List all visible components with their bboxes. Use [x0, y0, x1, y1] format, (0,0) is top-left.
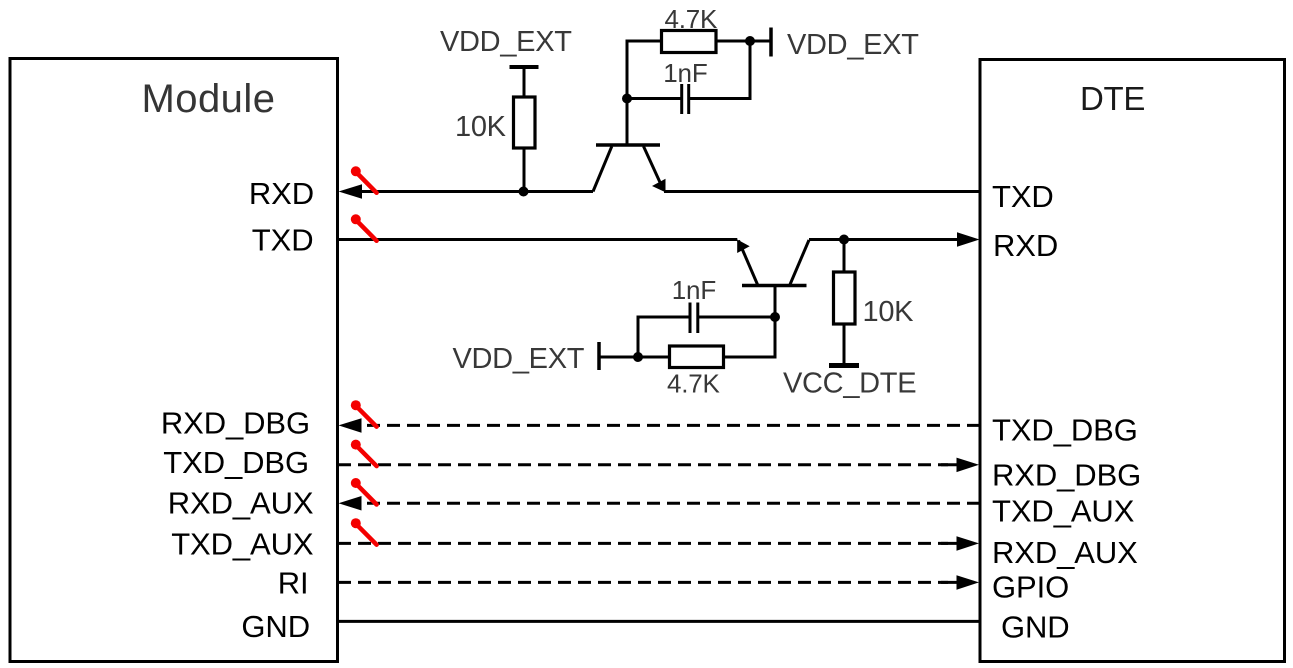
svg-text:VDD_EXT: VDD_EXT: [440, 26, 572, 58]
wire RXD right segment: [664, 190, 980, 193]
module box U1 (Module): [10, 59, 338, 662]
svg-text:RXD_AUX: RXD_AUX: [168, 485, 314, 520]
wire TXD left segment: [338, 238, 737, 241]
svg-text:RXD_DBG: RXD_DBG: [992, 458, 1141, 493]
red switch mark on RXD: [351, 166, 377, 193]
node junction Q2 base: [770, 312, 780, 322]
red switch mark on TXD_AUX: [351, 518, 377, 545]
wire TXD right segment: [809, 238, 959, 241]
wire VDD to R3: [599, 356, 670, 359]
svg-text:VCC_DTE: VCC_DTE: [783, 368, 916, 400]
arrow into module RXD_AUX: [339, 496, 362, 511]
svg-text:4.7K: 4.7K: [665, 4, 719, 34]
power symbol VDD_EXT top-right (bar): [769, 28, 773, 57]
red switch mark on TXD: [351, 214, 377, 241]
red switch mark on RXD_AUX: [351, 478, 377, 505]
wire Q1 base network left vertical: [627, 41, 662, 145]
arrow into DTE RXD: [957, 232, 980, 247]
dashed wire RXD_DBG: [367, 424, 980, 427]
resistor R3 4.7K: [670, 346, 724, 368]
svg-text:TXD_DBG: TXD_DBG: [163, 445, 309, 480]
red switch mark on RXD_DBG: [351, 400, 377, 427]
arrow into DTE RXD_DBG: [957, 458, 980, 473]
solid lead GPIO arrow: [941, 581, 958, 584]
wire R1 bottom to RXD line: [523, 148, 526, 192]
svg-text:VDD_EXT: VDD_EXT: [453, 343, 585, 375]
dashed wire TXD_DBG: [338, 463, 948, 466]
wire R4 top: [843, 240, 846, 273]
resistor R2 4.7K: [662, 31, 717, 53]
svg-text:10K: 10K: [863, 296, 915, 328]
DTE box U2: [980, 60, 1285, 662]
svg-text:DTE: DTE: [1080, 80, 1145, 117]
wire GND: [338, 620, 980, 623]
dashed wire TXD_AUX: [338, 542, 948, 545]
node junction Q1 base: [622, 94, 632, 104]
dashed wire RI-GPIO: [338, 581, 948, 584]
wire RXD left segment: [352, 190, 593, 193]
wire C2 right to Q2 base node: [699, 316, 775, 319]
svg-text:RXD: RXD: [249, 176, 314, 211]
power symbol VDD_EXT middle (bar): [597, 342, 601, 370]
node junction at R2 right: [745, 36, 755, 46]
svg-text:GND: GND: [1001, 610, 1070, 645]
svg-text:RXD_AUX: RXD_AUX: [992, 535, 1138, 570]
transistor Q2: [737, 240, 809, 318]
solid lead TXD_DBG arrow: [941, 463, 958, 466]
wire C1 left: [627, 97, 681, 100]
capacitor C1 1nF plates: [680, 84, 683, 114]
capacitor C2 1nF plates: [689, 303, 692, 334]
solid lead TXD_AUX arrow: [941, 542, 958, 545]
svg-text:TXD: TXD: [252, 223, 314, 258]
arrow into module RXD_DBG: [339, 418, 362, 433]
svg-text:1nF: 1nF: [672, 275, 716, 305]
svg-text:TXD: TXD: [992, 179, 1054, 214]
dashed wire RXD_AUX: [367, 502, 980, 505]
wire C2 branch left vertical: [638, 317, 689, 357]
svg-text:RI: RI: [278, 566, 309, 601]
power symbol VCC_DTE (bar): [829, 363, 859, 368]
svg-text:VDD_EXT: VDD_EXT: [787, 29, 919, 61]
svg-text:10K: 10K: [455, 111, 507, 143]
power symbol VDD_EXT top-left: [510, 65, 539, 69]
svg-text:GPIO: GPIO: [992, 570, 1069, 605]
svg-text:TXD_AUX: TXD_AUX: [171, 527, 314, 562]
resistor R4 10K: [834, 272, 856, 324]
svg-text:TXD_DBG: TXD_DBG: [992, 413, 1138, 448]
resistor R1 10K: [514, 97, 536, 148]
arrow into module RXD: [339, 184, 363, 199]
svg-text:TXD_AUX: TXD_AUX: [992, 493, 1135, 528]
node junction on RXD line: [519, 187, 529, 197]
arrow into DTE RXD_AUX: [957, 536, 980, 551]
red switch mark on TXD_DBG: [351, 440, 377, 467]
wire R4 bottom: [843, 324, 846, 364]
wire R2 right lead: [716, 40, 771, 43]
wire C1 right and up to R2 right node: [690, 41, 750, 99]
svg-text:4.7K: 4.7K: [667, 369, 721, 399]
svg-text:RXD_DBG: RXD_DBG: [161, 406, 310, 441]
node junction R4 top on TXD line: [839, 235, 849, 245]
svg-text:Module: Module: [142, 77, 276, 121]
transistor Q1: [593, 99, 666, 193]
wire R3 right to Q2 base corner: [724, 317, 776, 357]
svg-text:1nF: 1nF: [663, 58, 707, 88]
arrow into DTE GPIO: [957, 575, 980, 590]
svg-text:GND: GND: [241, 609, 310, 644]
svg-text:RXD: RXD: [993, 228, 1058, 263]
node junction C2/R3 left: [633, 352, 643, 362]
